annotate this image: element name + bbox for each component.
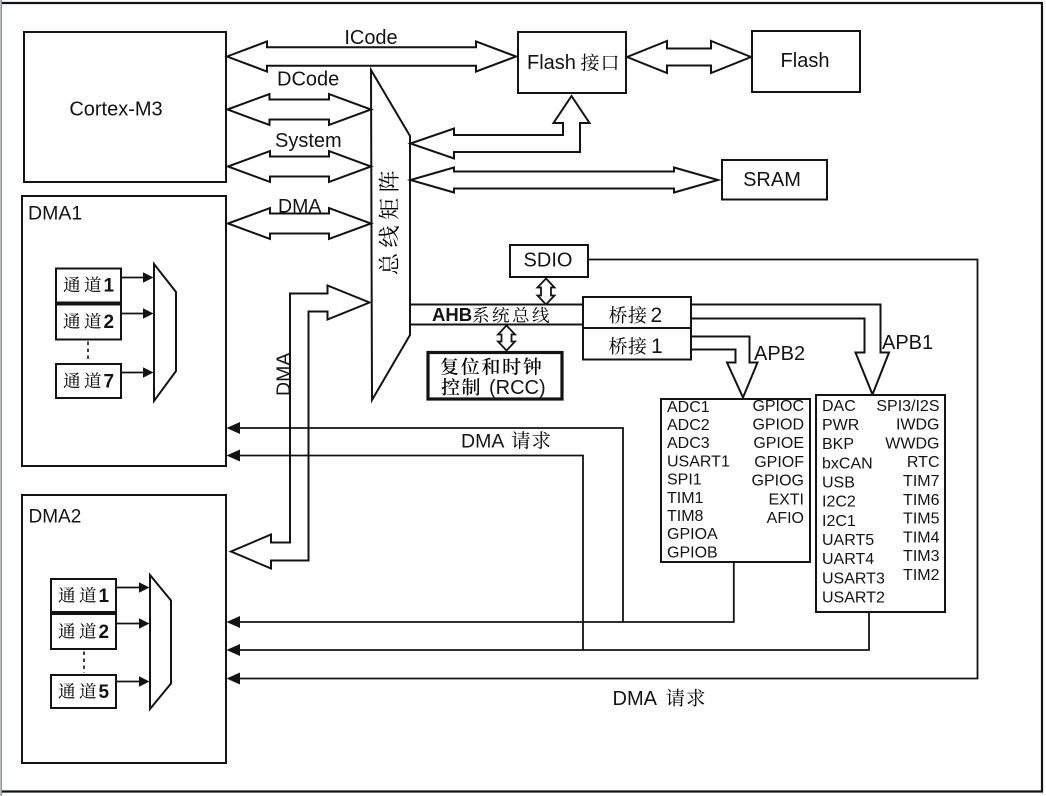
block SDIO xyxy=(510,245,588,277)
svg-text:2: 2 xyxy=(99,622,110,643)
elbow bus arrow bus matrix to Flash interface xyxy=(411,96,590,159)
wire DMA2 channel2 to mux xyxy=(116,618,150,629)
svg-text:GPIOE: GPIOE xyxy=(753,435,804,452)
svg-text:bxCAN: bxCAN xyxy=(822,455,873,472)
svg-text:SDIO: SDIO xyxy=(524,250,573,272)
svg-text:DMA2: DMA2 xyxy=(29,507,82,528)
svg-text:1: 1 xyxy=(651,335,663,358)
svg-text:ADC3: ADC3 xyxy=(667,435,710,452)
bus arrow System (Cortex-M3 to bus matrix) xyxy=(228,151,371,182)
svg-text:GPIOC: GPIOC xyxy=(752,398,804,415)
wire DMA1 channel2 to mux xyxy=(121,308,154,319)
svg-text:SPI1: SPI1 xyxy=(667,472,702,489)
svg-text:TIM8: TIM8 xyxy=(667,508,704,525)
svg-text:IWDG: IWDG xyxy=(896,417,940,434)
block bridge 2 (桥接2) xyxy=(583,297,691,328)
svg-text:1: 1 xyxy=(99,586,110,607)
block DMA1 xyxy=(22,196,226,466)
svg-text:I2C2: I2C2 xyxy=(822,494,856,511)
wire DMA1 channel7 to mux xyxy=(121,367,154,378)
wire DMA request from APB2 group to DMA1 xyxy=(227,422,624,622)
small vertical double arrow AHB bus to RCC xyxy=(498,326,515,351)
svg-text:2: 2 xyxy=(104,312,115,333)
block Flash xyxy=(752,31,860,92)
small vertical double arrow SDIO to AHB bus xyxy=(538,279,555,305)
hollow arrow bridge 1 to APB2 peripherals xyxy=(691,337,758,398)
svg-text:GPIOA: GPIOA xyxy=(667,526,718,543)
svg-text:7: 7 xyxy=(104,372,115,393)
dashed ellipsis between DMA1 channel 2 and channel 7 xyxy=(87,342,89,363)
svg-text:SRAM: SRAM xyxy=(743,169,801,191)
svg-text:(RCC): (RCC) xyxy=(489,377,546,399)
svg-text:DMA: DMA xyxy=(273,353,295,396)
svg-text:PWR: PWR xyxy=(822,417,859,434)
svg-text:Flash: Flash xyxy=(781,50,830,72)
svg-text:GPIOD: GPIOD xyxy=(752,417,804,434)
svg-text:GPIOB: GPIOB xyxy=(667,544,718,561)
wire DMA request APB2 box to DMA2 xyxy=(227,562,734,628)
svg-text:RTC: RTC xyxy=(907,454,940,471)
svg-text:2: 2 xyxy=(651,304,663,327)
block Flash interface (Flash 接口) xyxy=(518,32,626,93)
svg-text:UART5: UART5 xyxy=(822,532,874,549)
svg-text:TIM4: TIM4 xyxy=(903,529,940,546)
svg-text:DMA: DMA xyxy=(461,431,504,453)
bus arrow DCode (Cortex-M3 to bus matrix) xyxy=(228,94,372,125)
svg-text:AFIO: AFIO xyxy=(767,510,804,527)
hollow arrow bridge 2 to APB1 peripherals xyxy=(691,305,889,395)
block Cortex-M3 xyxy=(24,32,226,182)
bus arrow Flash interface to Flash xyxy=(627,41,751,73)
svg-text:GPIOF: GPIOF xyxy=(754,454,804,471)
block RCC (复位和时钟控制) xyxy=(428,353,562,400)
dashed ellipsis between DMA2 channel 2 and channel 5 xyxy=(83,652,85,674)
svg-text:USB: USB xyxy=(822,475,855,492)
wire DMA request APB1 box to DMA2 xyxy=(227,612,870,656)
wire DMA2 channel1 to mux xyxy=(116,582,150,593)
wire SDIO DMA request line (right side loop to DMA2) xyxy=(227,260,978,685)
svg-text:I2C1: I2C1 xyxy=(822,513,856,530)
svg-text:APB2: APB2 xyxy=(754,343,805,365)
block DMA1 channel 2 (通道2) xyxy=(56,305,121,340)
DMA1 multiplexer trapezoid xyxy=(154,264,176,401)
block DMA2 channel 2 (通道2) xyxy=(51,614,116,649)
svg-text:TIM6: TIM6 xyxy=(903,492,940,509)
label DMA 请求 (lower) xyxy=(613,688,705,710)
svg-text:ADC1: ADC1 xyxy=(667,399,710,416)
svg-text:TIM1: TIM1 xyxy=(667,490,704,507)
svg-text:DMA: DMA xyxy=(613,688,658,710)
block APB2 peripherals xyxy=(661,398,810,562)
block APB1 peripherals xyxy=(816,395,945,612)
bus arrow bus matrix to SRAM xyxy=(411,168,719,193)
svg-text:Cortex-M3: Cortex-M3 xyxy=(69,99,162,121)
svg-text:TIM3: TIM3 xyxy=(903,548,940,565)
block DMA1 channel 7 (通道7) xyxy=(56,364,121,398)
block DMA2 xyxy=(22,495,226,763)
svg-text:EXTI: EXTI xyxy=(768,491,804,508)
svg-text:USART1: USART1 xyxy=(667,453,730,470)
svg-text:WWDG: WWDG xyxy=(885,435,939,452)
block DMA2 channel 5 (通道5) xyxy=(51,675,116,708)
svg-text:DCode: DCode xyxy=(277,69,339,91)
DMA2 multiplexer trapezoid xyxy=(150,575,171,709)
svg-text:DMA1: DMA1 xyxy=(28,203,82,225)
label DMA 请求 (upper) xyxy=(461,431,550,453)
svg-text:UART4: UART4 xyxy=(822,551,874,568)
wire DMA2 channel5 to mux xyxy=(116,676,150,687)
bus matrix parallelogram (总线矩阵) xyxy=(371,70,410,400)
block bridge 1 (桥接1) xyxy=(583,328,691,360)
svg-text:1: 1 xyxy=(104,276,115,297)
svg-text:ADC2: ADC2 xyxy=(667,417,710,434)
svg-text:USART3: USART3 xyxy=(822,570,885,587)
svg-text:AHB: AHB xyxy=(432,304,472,325)
svg-text:BKP: BKP xyxy=(822,436,854,453)
svg-text:USART2: USART2 xyxy=(822,590,885,607)
svg-text:TIM7: TIM7 xyxy=(903,473,940,490)
block DMA2 channel 1 (通道1) xyxy=(51,579,116,612)
svg-text:GPIOG: GPIOG xyxy=(752,473,804,490)
svg-text:DAC: DAC xyxy=(822,398,856,415)
svg-text:System: System xyxy=(275,130,342,152)
svg-text:TIM2: TIM2 xyxy=(903,567,940,584)
svg-text:APB1: APB1 xyxy=(882,332,933,354)
svg-text:5: 5 xyxy=(99,682,110,703)
block SRAM xyxy=(722,160,827,200)
bus arrow DMA (DMA1 to bus matrix) xyxy=(228,208,371,239)
wire DMA request from APB1 group to DMA1 xyxy=(227,450,584,651)
svg-text:DMA: DMA xyxy=(278,196,321,218)
svg-text:TIM5: TIM5 xyxy=(903,511,940,528)
block DMA1 channel 1 (通道1) xyxy=(56,269,121,303)
elbow bus arrow bus matrix to DMA2 (big DMA path) xyxy=(231,286,370,569)
svg-text:Flash: Flash xyxy=(527,52,576,74)
wire DMA1 channel1 to mux xyxy=(121,272,154,283)
AHB system bus lines (AHB系统总线) xyxy=(411,304,583,325)
svg-text:ICode: ICode xyxy=(344,27,397,49)
svg-text:SPI3/I2S: SPI3/I2S xyxy=(876,398,939,415)
bus arrow ICode (Cortex-M3 to Flash interface) xyxy=(227,42,516,72)
